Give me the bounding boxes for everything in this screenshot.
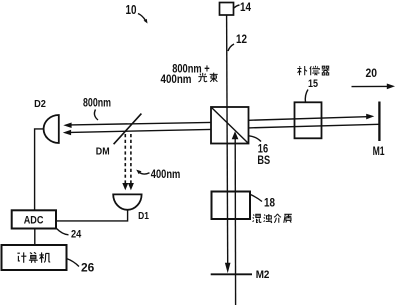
- 算: [29, 252, 38, 262]
- wire: downward beam from source through BS to M2: [227, 15, 228, 264]
- svg-text:16: 16: [258, 143, 268, 155]
- svg-text:15: 15: [308, 78, 318, 90]
- wire: return beam from M2 up into BS: [234, 139, 236, 305]
- svg-text:M1: M1: [373, 146, 385, 158]
- svg-text:BS: BS: [257, 155, 270, 167]
- wire D2 to ADC: [35, 129, 44, 210]
- leader to label 24: [57, 229, 69, 235]
- beam: BS to D2 (bottom, arrow left): [71, 129, 212, 132]
- leader arrow from 10: [138, 14, 146, 21]
- wire D1 to ADC: [56, 210, 127, 221]
- 补: [297, 66, 307, 75]
- detector D1: [113, 194, 141, 209]
- computer box 26: [2, 245, 67, 270]
- arrowhead right dashed: [128, 183, 134, 190]
- leader from 800nm to beam: [94, 110, 98, 121]
- beam: BS to D2 (top, arrow left): [71, 122, 212, 125]
- svg-text:400nm: 400nm: [161, 74, 192, 86]
- leader to line 12: [228, 44, 234, 51]
- svg-text:18: 18: [264, 196, 275, 210]
- 质: [284, 214, 292, 223]
- arrowhead up inside BS: [232, 131, 239, 139]
- leader from 15 to box: [305, 90, 308, 103]
- 介: [274, 214, 281, 223]
- dashed 400nm beam (right): [130, 134, 132, 183]
- svg-text:D2: D2: [34, 98, 46, 110]
- svg-text:10: 10: [126, 3, 137, 17]
- mirror M1: [378, 102, 380, 142]
- svg-text:12: 12: [236, 32, 247, 46]
- svg-text:14: 14: [240, 0, 251, 14]
- svg-text:800nm: 800nm: [83, 98, 111, 110]
- leader to label 26: [67, 259, 80, 267]
- mirror M2: [211, 273, 252, 275]
- leader to label 14: [234, 5, 240, 8]
- leader to label 16: [249, 136, 261, 142]
- 光: [198, 73, 207, 82]
- svg-text:26: 26: [81, 261, 95, 275]
- beamsplitter BS 16: [211, 107, 249, 144]
- dashed 400nm beam (left): [124, 134, 126, 183]
- dichroic mirror DM: [114, 114, 142, 145]
- svg-text:M2: M2: [256, 269, 270, 281]
- leader to label 18: [251, 195, 263, 202]
- svg-text:ADC: ADC: [24, 215, 44, 227]
- 器: [322, 66, 330, 75]
- beam: BS to M1 (top, with arrow): [249, 117, 368, 121]
- svg-text:DM: DM: [96, 145, 110, 157]
- CJK 混浊介质 (turbid medium): [253, 214, 292, 223]
- 浊: [264, 214, 272, 223]
- source box 14: [220, 3, 234, 16]
- beam: M1 return (bottom): [249, 124, 379, 128]
- svg-text:400nm: 400nm: [151, 169, 181, 181]
- arrowhead left dashed: [122, 183, 128, 190]
- leader from 400nm to dashed beam: [139, 172, 150, 174]
- CJK 光束 (beam): [198, 73, 217, 82]
- turbid medium box 18: [212, 192, 251, 220]
- 机: [39, 252, 50, 262]
- wire ADC to computer: [34, 229, 36, 246]
- svg-text:24: 24: [71, 228, 82, 240]
- detector D2: [44, 115, 59, 143]
- CJK 补偿器 (compensator): [297, 66, 329, 76]
- svg-text:D1: D1: [138, 210, 149, 222]
- 偿: [310, 66, 320, 76]
- compensator box 15: [295, 102, 322, 138]
- CJK 计算机 (computer): [17, 252, 50, 262]
- 混: [253, 214, 262, 222]
- svg-text:20: 20: [366, 66, 378, 80]
- 束: [210, 73, 218, 82]
- reference arrow 20: [352, 85, 389, 87]
- 计: [17, 252, 26, 262]
- arrowhead down at M2: [225, 263, 231, 273]
- ADC box 24: [12, 210, 56, 228]
